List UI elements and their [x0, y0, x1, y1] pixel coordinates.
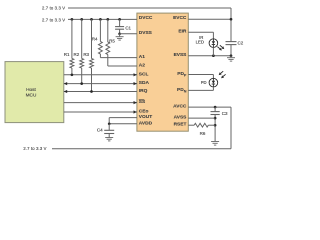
svg-text:C3: C3 — [222, 111, 228, 116]
svg-text:EVCC: EVCC — [173, 15, 187, 21]
svg-text:DVCC: DVCC — [139, 15, 153, 21]
svg-text:2.7 to 3.3 V: 2.7 to 3.3 V — [42, 5, 65, 10]
svg-text:Host: Host — [26, 87, 36, 92]
svg-text:MCU: MCU — [26, 93, 37, 98]
svg-text:PD: PD — [201, 80, 207, 85]
svg-text:C1: C1 — [125, 26, 131, 31]
svg-text:LED: LED — [196, 39, 204, 44]
svg-text:AVSS: AVSS — [174, 115, 188, 121]
svg-text:SS: SS — [139, 99, 146, 105]
svg-text:2.7 to 3.3 V: 2.7 to 3.3 V — [23, 146, 46, 151]
svg-text:C4: C4 — [97, 128, 103, 133]
svg-text:C2: C2 — [238, 41, 244, 46]
svg-text:SCL: SCL — [139, 71, 149, 77]
svg-text:A2: A2 — [139, 63, 145, 69]
svg-text:R3: R3 — [83, 52, 89, 57]
svg-text:AVDD: AVDD — [139, 120, 153, 126]
svg-text:CEo: CEo — [139, 109, 149, 115]
svg-text:R4: R4 — [92, 37, 98, 42]
svg-text:RSET: RSET — [174, 122, 187, 128]
svg-text:AVCC: AVCC — [173, 104, 187, 110]
svg-text:EIR: EIR — [178, 28, 187, 34]
svg-text:A1: A1 — [139, 54, 145, 60]
svg-text:IRQ: IRQ — [139, 88, 148, 94]
svg-text:R2: R2 — [74, 52, 80, 57]
svg-text:SDA: SDA — [139, 80, 150, 86]
svg-text:2.7 to 3.3 V: 2.7 to 3.3 V — [42, 18, 65, 23]
svg-text:DVSS: DVSS — [139, 30, 153, 36]
svg-text:EVSS: EVSS — [174, 52, 188, 58]
svg-text:R1: R1 — [64, 52, 70, 57]
svg-text:VOUT: VOUT — [139, 114, 152, 120]
svg-text:R5: R5 — [109, 39, 115, 44]
svg-text:R6: R6 — [200, 131, 206, 136]
